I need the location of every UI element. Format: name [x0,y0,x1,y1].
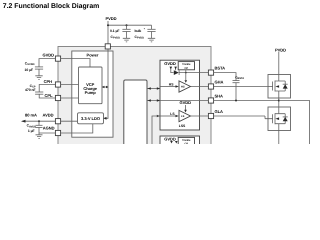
capacitor CAVDD 1uF [27,121,43,133]
svg-text:CPH: CPH [44,79,53,84]
body diode [279,81,285,91]
wire source down [278,131,280,145]
pin GLA [208,109,223,119]
trickle charge pump B [178,137,194,145]
svg-text:0.1 µF: 0.1 µF [110,29,119,33]
svg-text:Trickle: Trickle [182,63,191,66]
HS gate driver U-HS [160,81,191,92]
capacitor CPVDD bulk [135,25,156,42]
node PVDD (right) [275,47,286,74]
pin BSTA [208,66,225,76]
wire cap to CPL [39,94,55,98]
svg-text:CPVDD: CPVDD [111,35,121,40]
svg-text:CP: CP [184,67,188,70]
svg-text:GVDD: GVDD [43,53,55,58]
svg-text:PVDD: PVDD [275,47,286,52]
svg-text:CPL: CPL [45,93,54,98]
svg-text:10 µF: 10 µF [25,68,34,72]
svg-text:1 µF: 1 µF [28,129,35,133]
arrowhead left [21,120,26,123]
svg-text:GLA: GLA [215,109,224,114]
capacitor CGVDD 10uF [25,59,56,80]
net GVDD feed in driver A [164,61,177,73]
pin SHA [208,94,223,104]
svg-text:Trickle: Trickle [182,139,191,142]
svg-text:LSS: LSS [179,124,186,128]
svg-text:3.3-V LDO: 3.3-V LDO [81,116,100,121]
junction [126,24,128,26]
wire BST rail to BSTA [179,70,209,83]
svg-text:BSTA: BSTA [215,66,226,71]
pin GVDD [43,53,91,68]
node SHA junction [278,98,310,145]
svg-text:PVDD: PVDD [105,16,116,21]
ground [36,135,43,139]
wire LS input branch to phase B [152,116,160,145]
Power block [72,51,113,137]
svg-text:CPVDD: CPVDD [135,35,145,40]
wire GVDD into VCP top [60,59,90,67]
trickle charge pump A [178,62,194,70]
junction [38,120,40,122]
3.3-V LDO [78,113,104,124]
svg-text:GVDD: GVDD [180,100,192,105]
wire AGND into IC [60,124,92,133]
wire phase out [279,101,310,145]
svg-text:AGND: AGND [43,125,55,130]
gate driver block B (cut off) [160,136,200,148]
net GVDD feed LS [180,100,192,112]
wire PVDD internal rail [102,49,108,120]
svg-text:80 mA: 80 mA [25,112,37,117]
junction [107,24,109,26]
control logic block [124,80,147,148]
ground [35,76,42,80]
LS gate driver U-LS [157,110,191,121]
IC outline [58,47,211,148]
arrowhead into LDO [103,117,106,120]
pin CPL [45,93,79,101]
wire SHA (control to node) [148,99,279,101]
wire CPL into VCP [60,97,78,99]
wire control to driver A (HS) [148,87,161,89]
wire CPH into VCP [60,84,78,86]
pin AVDD [43,112,78,123]
svg-text:LS: LS [181,115,185,118]
capacitor CBSTA [213,73,244,102]
VCP charge pump [79,67,103,104]
wire GLA [191,115,266,117]
arrow VCP to rail [102,86,108,88]
svg-text:AVDD: AVDD [43,112,54,117]
pin AGND [36,124,93,139]
svg-text:CP: CP [184,143,188,144]
pin CPH [44,79,79,87]
wire CPH to cap [39,85,55,93]
wire GHA [191,86,269,88]
wire GVDD to cap [39,59,56,67]
body diode [279,114,285,124]
svg-text:SHA: SHA [215,94,224,99]
transistor low-side FET [265,107,291,145]
wire AVDD 80mA load [21,112,56,122]
svg-text:470 nF: 470 nF [25,88,35,92]
wire AGND to ground [39,132,56,134]
svg-text:GVDD: GVDD [164,137,176,142]
svg-text:GVDD: GVDD [164,61,176,66]
pin PVDD [105,44,110,49]
wire PVDD vertical [107,21,109,44]
capacitor CCP 470nF [25,84,56,98]
gate driver block A [160,60,200,130]
svg-text:Pump: Pump [85,90,97,95]
pin GHA [208,80,223,90]
diode bootstrap [174,70,179,75]
input wire with arrow [160,86,176,88]
svg-text:7.2 Functional Block Diagram: 7.2 Functional Block Diagram [3,3,100,10]
stub into HS driver top [185,73,187,81]
ground [148,38,155,42]
svg-text:GHA: GHA [215,80,224,85]
svg-text:Power: Power [87,53,99,58]
transistor high-side FET [268,75,291,99]
wire AVDD to LDO [60,120,77,122]
svg-text:bulk: bulk [135,29,142,33]
node PVDD (top) [105,16,151,44]
capacitor CPVDD 0.1uF [110,25,131,42]
wire PVDD branch to caps [108,24,152,26]
svg-text:HS: HS [181,86,185,89]
ground [123,38,130,42]
